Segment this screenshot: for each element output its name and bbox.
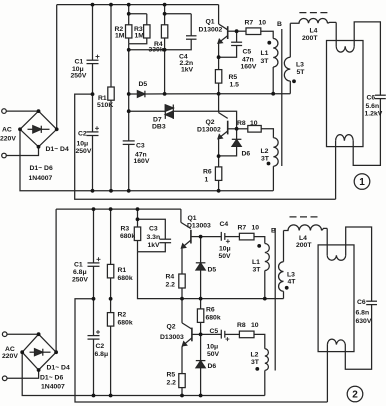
- wire bottom rail circuit 2: [22, 352, 265, 395]
- resistor R7 circuit 2: [239, 233, 254, 240]
- svg-text:C3: C3: [149, 226, 158, 233]
- svg-text:Q2: Q2: [206, 119, 215, 126]
- svg-text:AC: AC: [2, 127, 12, 134]
- svg-text:50V: 50V: [207, 351, 220, 358]
- svg-text:L2: L2: [251, 352, 259, 359]
- svg-text:D1~ D6: D1~ D6: [30, 165, 53, 172]
- svg-text:C5: C5: [243, 49, 252, 56]
- svg-text:1kV: 1kV: [148, 242, 161, 249]
- resistor R2 circuit 2: [110, 299, 112, 313]
- svg-text:R1: R1: [118, 267, 127, 274]
- inductor L1 3T circuit 2: [265, 244, 270, 271]
- transistor Q1 circuit 2: [180, 209, 182, 222]
- svg-text:L4: L4: [299, 235, 307, 242]
- AC source terminals circuit 2: [2, 332, 7, 337]
- resistor R3 circuit 2: [137, 209, 139, 227]
- fluorescent tube 2: [318, 245, 354, 352]
- svg-text:10μ: 10μ: [77, 141, 89, 148]
- svg-text:3T: 3T: [253, 267, 262, 274]
- svg-text:B: B: [277, 21, 282, 28]
- wire midpoint line circuit 1: [145, 93, 290, 95]
- svg-text:L2: L2: [261, 148, 269, 155]
- wire Q1 emitter: [218, 43, 220, 57]
- phase dot L3 circuit 2: [285, 286, 289, 290]
- svg-text:D1~ D6: D1~ D6: [40, 375, 63, 382]
- svg-text:R7: R7: [245, 20, 254, 27]
- svg-text:6.8n: 6.8n: [356, 310, 370, 317]
- resistor R4: [165, 5, 192, 14]
- resistor R1 circuit 2: [110, 209, 112, 264]
- svg-text:47n: 47n: [242, 57, 254, 64]
- transistor Q2 circuit 2: [181, 299, 183, 323]
- inductor L3 5T: [289, 23, 291, 57]
- diode D5 circuit 2: [200, 237, 202, 263]
- transistor Q1: [218, 5, 220, 24]
- svg-text:C1: C1: [75, 59, 84, 66]
- svg-text:1M: 1M: [135, 33, 145, 40]
- resistor R7: [246, 28, 261, 35]
- svg-text:R5: R5: [229, 74, 238, 81]
- wire diac line: [129, 110, 166, 112]
- capacitor C4: [190, 14, 192, 36]
- svg-text:3.3n: 3.3n: [147, 234, 161, 241]
- svg-text:R1: R1: [98, 95, 107, 102]
- circled number 1: [354, 174, 370, 190]
- diode D6 circuit 2: [200, 334, 202, 360]
- tube 1 top filament: [335, 22, 337, 46]
- svg-text:1N4007: 1N4007: [41, 384, 65, 391]
- svg-text:2.2: 2.2: [166, 282, 176, 289]
- svg-text:R4: R4: [166, 274, 175, 281]
- svg-text:10: 10: [250, 120, 258, 127]
- tube 2 top filament: [326, 228, 328, 255]
- svg-text:C6: C6: [367, 95, 376, 102]
- svg-text:6.8μ: 6.8μ: [73, 269, 87, 276]
- wire AC to bridge circuit 1: [6, 110, 38, 112]
- svg-text:1kV: 1kV: [181, 66, 194, 73]
- transistor Q2: [218, 94, 220, 113]
- svg-text:10μ: 10μ: [207, 344, 219, 351]
- circled number 2: [347, 386, 363, 402]
- svg-text:1: 1: [205, 177, 209, 184]
- svg-text:L3: L3: [296, 62, 304, 69]
- capacitor C6 circuit 2: [366, 300, 377, 302]
- wire bottom rail circuit 1: [20, 129, 273, 191]
- inductor L3 4T circuit 2: [283, 231, 285, 262]
- svg-text:680k: 680k: [120, 233, 135, 240]
- wire R2R3 bottom node: [129, 44, 165, 50]
- svg-text:10: 10: [251, 322, 259, 329]
- svg-text:1N4007: 1N4007: [29, 175, 53, 182]
- svg-text:6.8μ: 6.8μ: [95, 351, 109, 358]
- svg-text:D1~ D4: D1~ D4: [47, 365, 70, 372]
- svg-text:3T: 3T: [261, 156, 270, 163]
- svg-text:D5: D5: [139, 81, 148, 88]
- resistor R6: [218, 156, 220, 167]
- transformer core T1 circuit 2: [274, 228, 276, 371]
- svg-text:D6: D6: [242, 151, 251, 158]
- svg-text:C2: C2: [96, 343, 105, 350]
- inductor L1 3T: [273, 39, 278, 68]
- svg-text:D7: D7: [153, 117, 162, 124]
- svg-text:680k: 680k: [118, 320, 133, 327]
- svg-text:3T: 3T: [261, 58, 270, 65]
- wire midpoint return bus circuit 1: [75, 94, 336, 199]
- svg-text:250V: 250V: [72, 277, 88, 284]
- svg-text:R7: R7: [238, 225, 247, 232]
- resistor R5: [218, 57, 220, 69]
- phase dot L3: [292, 79, 296, 83]
- diode D5: [129, 93, 138, 95]
- core dashes L4 circuit 2: [290, 216, 320, 218]
- phase dot L2: [267, 162, 271, 166]
- svg-text:Q2: Q2: [167, 324, 176, 331]
- capacitor C3: [128, 94, 130, 141]
- capacitor C4 circuit 2: [201, 236, 222, 238]
- svg-text:160V: 160V: [134, 158, 150, 165]
- svg-text:3T: 3T: [251, 359, 260, 366]
- svg-text:1.5: 1.5: [230, 82, 240, 89]
- diode D6: [236, 129, 238, 140]
- inductor L2 3T: [273, 138, 278, 167]
- phase dot L2 circuit 2: [255, 367, 259, 371]
- svg-text:250V: 250V: [76, 148, 92, 155]
- svg-text:R3: R3: [121, 226, 130, 233]
- svg-text:50V: 50V: [219, 253, 232, 260]
- bridge rectifier D1-D4 circuit 2: [22, 334, 56, 370]
- resistor R2: [128, 5, 130, 14]
- wire top rail circuit 2: [56, 208, 181, 210]
- svg-text:10: 10: [252, 225, 260, 232]
- svg-text:D13003: D13003: [160, 334, 184, 341]
- svg-text:220V: 220V: [0, 136, 16, 143]
- svg-text:510K: 510K: [97, 102, 113, 109]
- resistor R6 circuit 2: [200, 299, 202, 309]
- inductor L4 200T circuit 2: [284, 225, 322, 231]
- svg-text:200T: 200T: [296, 242, 312, 249]
- svg-text:R8: R8: [237, 322, 246, 329]
- svg-text:5.6n: 5.6n: [366, 103, 380, 110]
- diac D7: [164, 105, 166, 119]
- svg-text:R6: R6: [203, 169, 212, 176]
- svg-text:1.2kV: 1.2kV: [365, 111, 383, 118]
- phase dot L1 circuit 2: [257, 244, 261, 248]
- svg-text:330k: 330k: [149, 47, 164, 54]
- svg-text:160V: 160V: [241, 64, 257, 71]
- svg-text:220V: 220V: [2, 353, 18, 360]
- svg-text:2: 2: [352, 390, 358, 401]
- svg-text:2.2: 2.2: [167, 380, 177, 387]
- bridge rectifier D1-D4 circuit 1: [20, 111, 57, 147]
- wire midpoint return bus circuit 2: [75, 299, 327, 402]
- capacitor C1 circuit 2: [93, 209, 95, 263]
- svg-text:B: B: [271, 228, 276, 235]
- AC source terminals circuit 1: [2, 109, 7, 114]
- svg-text:C2: C2: [78, 131, 87, 138]
- svg-text:1: 1: [359, 177, 365, 188]
- resistor R8: [237, 128, 248, 130]
- wire top rail circuit 1: [57, 4, 219, 6]
- svg-text:AC: AC: [5, 346, 15, 353]
- svg-text:L3: L3: [287, 272, 295, 279]
- tube 1 bottom filament: [336, 135, 354, 141]
- svg-text:C4: C4: [220, 221, 229, 228]
- svg-text:C1: C1: [74, 262, 83, 269]
- svg-text:C5: C5: [210, 328, 219, 335]
- svg-text:680k: 680k: [206, 315, 221, 322]
- transformer core T1: [281, 29, 283, 166]
- svg-text:DB3: DB3: [152, 124, 166, 131]
- svg-text:L1: L1: [261, 50, 269, 57]
- capacitor C1: [92, 5, 94, 61]
- inductor L4 200T: [290, 19, 327, 24]
- wire R3 bottom to midpoint circuit 2: [138, 252, 284, 299]
- svg-text:C6: C6: [357, 299, 366, 306]
- junction dots circuit 2: [92, 207, 96, 211]
- svg-text:630V: 630V: [356, 318, 372, 325]
- svg-text:D6: D6: [208, 363, 217, 370]
- core dashes L4: [299, 12, 327, 14]
- capacitor C5: [236, 31, 238, 42]
- capacitor C6: [375, 94, 386, 96]
- svg-text:D13003: D13003: [187, 223, 211, 230]
- wire AC to bridge circuit 2: [7, 333, 39, 335]
- svg-text:200T: 200T: [302, 35, 318, 42]
- svg-text:L1: L1: [252, 259, 260, 266]
- wire R4 node to midpoint: [164, 50, 166, 94]
- resistor R5 circuit 2: [182, 345, 183, 373]
- svg-text:4T: 4T: [288, 279, 297, 286]
- svg-text:D13002: D13002: [199, 27, 223, 34]
- svg-text:250V: 250V: [71, 73, 87, 80]
- inductor L2 3T circuit 2: [265, 349, 269, 371]
- resistor R1: [110, 5, 112, 87]
- svg-text:D5: D5: [208, 267, 217, 274]
- capacitor C2: [92, 94, 94, 132]
- svg-text:R5: R5: [167, 372, 176, 379]
- resistor R8 circuit 2: [239, 331, 254, 338]
- svg-text:L4: L4: [310, 28, 318, 35]
- tube 2 bottom filament: [327, 339, 345, 345]
- svg-text:10: 10: [259, 20, 267, 27]
- phase dot L1: [267, 41, 271, 45]
- svg-text:R2: R2: [118, 312, 127, 319]
- fluorescent tube 1: [327, 41, 364, 147]
- svg-text:D1~ D4: D1~ D4: [46, 146, 69, 153]
- resistor R4 circuit 2: [181, 248, 183, 275]
- svg-text:Q1: Q1: [188, 215, 197, 222]
- svg-text:C3: C3: [136, 143, 145, 150]
- svg-text:680k: 680k: [118, 275, 133, 282]
- svg-text:1M: 1M: [115, 33, 125, 40]
- svg-text:Q1: Q1: [206, 19, 215, 26]
- svg-text:R8: R8: [237, 120, 246, 127]
- resistor R3: [146, 14, 148, 25]
- svg-text:10μ: 10μ: [219, 246, 231, 253]
- wire bridge plus to top rail circuit 1: [56, 5, 58, 130]
- capacitor C2 circuit 2: [93, 299, 95, 336]
- svg-text:5T: 5T: [297, 69, 306, 76]
- svg-text:R6: R6: [206, 307, 215, 314]
- capacitor C3 circuit 2: [138, 219, 166, 239]
- wire bridge plus to top rail circuit 2: [55, 209, 57, 352]
- capacitor C5 circuit 2: [201, 333, 222, 335]
- svg-text:D13002: D13002: [197, 127, 221, 134]
- junction dots circuit 1: [91, 3, 95, 7]
